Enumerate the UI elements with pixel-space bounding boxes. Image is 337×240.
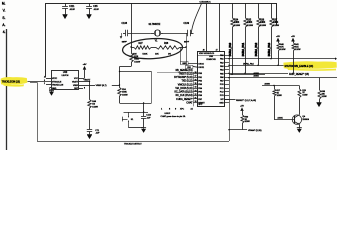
svg-text:C111: C111 xyxy=(69,6,75,8)
svg-text:SHUTDOWN_ENABLE (13): SHUTDOWN_ENABLE (13) xyxy=(285,65,314,68)
ground Q4 xyxy=(297,124,302,132)
svg-text:1/10W: 1/10W xyxy=(302,95,307,97)
svg-text:OSCO: OSCO xyxy=(198,63,204,65)
junction dots xyxy=(89,46,294,130)
svg-text:10K: 10K xyxy=(155,53,159,55)
label KB_SENSE xyxy=(157,70,198,106)
svg-text:R28: R28 xyxy=(164,43,169,45)
wire Y1 to C139 xyxy=(163,33,187,35)
svg-text:C65: C65 xyxy=(93,6,98,8)
svg-text:PB6: PB6 xyxy=(198,95,202,97)
value labels feedback row xyxy=(133,53,172,55)
U30 top pin 27 xyxy=(216,3,220,52)
svg-text:1/10W: 1/10W xyxy=(247,25,253,27)
svg-text:16: 16 xyxy=(195,79,197,81)
op-amp U40 box xyxy=(52,71,79,90)
pullup resistor R36 / net DURA_PA2 xyxy=(255,3,266,65)
wire mid horizontal xyxy=(120,72,152,104)
CUDA block outline xyxy=(46,4,277,78)
svg-text:A0686: A0686 xyxy=(265,83,270,86)
svg-text:PB7: PB7 xyxy=(198,99,202,101)
svg-text:KC_CLK (15,16): KC_CLK (15,16) xyxy=(176,95,193,97)
wire R25 elbow xyxy=(120,62,132,67)
osc feedback wire 2 xyxy=(185,47,197,69)
U30 right pin names xyxy=(219,54,224,104)
svg-text:RESET* (1,2,7,A,HI): RESET* (1,2,7,A,HI) xyxy=(236,99,256,102)
resistor R30 xyxy=(241,115,250,130)
svg-text:VRAM* (2,15): VRAM* (2,15) xyxy=(248,129,262,132)
svg-text:PA6: PA6 xyxy=(220,76,223,79)
svg-text:40: 40 xyxy=(203,50,205,52)
wire Q4 base xyxy=(274,117,295,120)
svg-text:C139: C139 xyxy=(184,23,190,25)
capacitor C110 xyxy=(141,112,152,128)
page margin text fragments xyxy=(2,1,6,33)
svg-text:+5V: +5V xyxy=(83,64,87,66)
capacitor C65 xyxy=(86,3,100,19)
U40 pin 4 stub xyxy=(44,77,51,79)
resistor R40 xyxy=(276,36,286,66)
svg-text:FAST_RESET* (15): FAST_RESET* (15) xyxy=(289,73,309,76)
svg-text:100K: 100K xyxy=(247,22,253,24)
svg-text:1/10W: 1/10W xyxy=(92,106,98,108)
transistor Q4 xyxy=(292,115,309,125)
node crystal-to-feedback xyxy=(186,33,188,47)
svg-text:2: 2 xyxy=(44,83,45,85)
svg-text:GND: GND xyxy=(52,88,57,90)
power +5V R30 xyxy=(240,106,244,116)
note text xyxy=(161,108,194,110)
svg-text:VRTC: VRTC xyxy=(52,78,58,80)
svg-text:XPC: XPC xyxy=(180,108,185,110)
svg-text:PA2: PA2 xyxy=(220,61,223,64)
svg-text:TRICKLE DETECT: TRICKLE DETECT xyxy=(124,144,142,146)
svg-text:VBATT: VBATT xyxy=(72,80,79,83)
U40 pin 2 stub xyxy=(44,83,51,85)
svg-text:PB1: PB1 xyxy=(198,77,202,79)
net labels into U30 xyxy=(174,72,197,105)
svg-text:PC1: PC1 xyxy=(220,88,224,90)
U40 pin names xyxy=(52,78,79,90)
svg-text:PB4: PB4 xyxy=(198,88,202,90)
svg-text:CHAT: CHAT xyxy=(186,102,193,105)
svg-text:DURA_PA4: DURA_PA4 xyxy=(243,62,255,65)
svg-text:+5V: +5V xyxy=(240,106,244,108)
svg-text:A.: A. xyxy=(2,23,5,27)
svg-text:1/10W: 1/10W xyxy=(277,95,282,97)
wire feedback row left xyxy=(131,47,134,49)
resistor R41 xyxy=(291,36,301,74)
svg-text:1%: 1% xyxy=(168,53,171,55)
U30 top pin 40 xyxy=(203,3,207,52)
mcu U30 box xyxy=(198,52,225,107)
wire VREF xyxy=(79,85,120,87)
svg-text:CUDA_RESET*: CUDA_RESET* xyxy=(176,98,192,101)
svg-text:XPC: XPC xyxy=(198,104,203,106)
ground S1 xyxy=(141,128,146,133)
bus wire row5 xyxy=(229,77,337,79)
capacitor C111 xyxy=(62,3,76,19)
svg-text:VDD VDD2/VLCD: VDD VDD2/VLCD xyxy=(199,53,215,55)
wire R27-R28 xyxy=(151,47,156,49)
svg-text:CHAT goes close to pin 15.: CHAT goes close to pin 15. xyxy=(161,115,187,118)
wire VRAM xyxy=(229,129,262,132)
svg-text:VIA_DATA (5,11): VIA_DATA (5,11) xyxy=(175,87,192,90)
bus wire PA1 xyxy=(229,73,288,75)
svg-text:8: 8 xyxy=(84,88,85,90)
svg-text:1/10W: 1/10W xyxy=(273,25,279,27)
resistor R68 xyxy=(318,78,327,102)
wire S1 drop xyxy=(143,103,145,112)
svg-text:4: 4 xyxy=(44,77,45,79)
resistor R27 xyxy=(134,43,151,49)
svg-text:0.5UF: 0.5UF xyxy=(165,113,171,115)
svg-text:14: 14 xyxy=(195,87,197,89)
capacitor C139 xyxy=(184,23,191,43)
crystal Y1 xyxy=(149,24,164,42)
pullup resistor R37 / net DURA_PA3 xyxy=(268,3,279,59)
svg-text:PB0: PB0 xyxy=(198,73,202,75)
wire S1 rail xyxy=(124,112,149,114)
ground R68 xyxy=(317,102,322,107)
svg-text:PB2: PB2 xyxy=(198,81,202,83)
note line 2 xyxy=(165,113,171,115)
svg-text:A2081: A2081 xyxy=(278,117,283,120)
label FAST_RESET xyxy=(289,73,309,76)
svg-text:DURA_PA3: DURA_PA3 xyxy=(268,42,271,56)
resistor R24 xyxy=(118,67,128,104)
svg-text:PC0: PC0 xyxy=(220,84,224,86)
svg-text:PA4: PA4 xyxy=(220,69,223,72)
U30 right pin stubs xyxy=(225,56,230,103)
svg-text:TREST (5,11): TREST (5,11) xyxy=(179,73,193,75)
yellow highlight SHUTDOWN_ENABLE xyxy=(283,61,336,71)
page fold line xyxy=(6,29,8,150)
bus wire PA2 xyxy=(229,62,284,65)
U40 gnd stub xyxy=(50,88,52,91)
svg-text:C138: C138 xyxy=(122,23,128,25)
svg-text:560K: 560K xyxy=(134,59,139,61)
svg-text:KC_DATA (10,15): KC_DATA (10,15) xyxy=(174,91,192,94)
svg-text:1/10W: 1/10W xyxy=(245,121,250,123)
svg-text:CDM5C743: CDM5C743 xyxy=(206,59,215,61)
svg-text:10: 10 xyxy=(195,101,197,103)
svg-text:510K: 510K xyxy=(143,53,148,55)
svg-text:1/10W: 1/10W xyxy=(260,25,266,27)
svg-text:LEVCN: LEVCN xyxy=(62,75,69,77)
curved wire to oscillator xyxy=(191,4,201,34)
svg-text:VTRICKLE: VTRICKLE xyxy=(52,81,62,83)
wire node row103 xyxy=(120,103,152,105)
power +5V at U40 xyxy=(79,64,87,78)
svg-text:68PF: 68PF xyxy=(184,42,190,44)
label TRICKLE DETECT xyxy=(124,144,142,146)
ground U40 xyxy=(49,91,54,96)
switch S1 xyxy=(122,112,134,128)
svg-text:32.768KHZ: 32.768KHZ xyxy=(149,24,161,26)
svg-text:PB5: PB5 xyxy=(198,91,202,93)
svg-text:100K: 100K xyxy=(234,22,240,24)
svg-text:PB3: PB3 xyxy=(198,84,202,86)
wire RESET* xyxy=(225,99,257,102)
svg-text:300K: 300K xyxy=(122,92,127,94)
svg-text:PA7: PA7 xyxy=(220,80,223,83)
svg-text:VREF (5,7): VREF (5,7) xyxy=(96,85,107,87)
svg-text:PA5: PA5 xyxy=(220,72,223,75)
svg-text:+5V: +5V xyxy=(291,36,295,38)
svg-text:.01UF: .01UF xyxy=(93,9,99,11)
svg-text:KB_SENSE (15): KB_SENSE (15) xyxy=(176,70,193,72)
node TRICKLE/ON wire xyxy=(28,80,52,82)
svg-text:100K: 100K xyxy=(260,22,266,24)
svg-text:GND: GND xyxy=(219,102,224,104)
svg-text:15: 15 xyxy=(195,83,197,85)
svg-text:A0686: A0686 xyxy=(254,72,259,75)
yellow highlight TRICKLE/ON xyxy=(1,77,28,87)
svg-text:68PF: 68PF xyxy=(122,42,128,44)
bus wire PA3 xyxy=(229,57,337,60)
svg-text:PA1: PA1 xyxy=(220,58,223,61)
ground C71 xyxy=(87,132,92,140)
svg-text:TXD (5,11): TXD (5,11) xyxy=(181,81,192,83)
resistor R19 xyxy=(298,86,308,115)
svg-text:S.: S. xyxy=(2,16,5,20)
resistor R17 xyxy=(273,86,282,120)
svg-text:VCC: VCC xyxy=(74,78,79,80)
U30 left pin names xyxy=(198,63,205,106)
svg-text:PC3: PC3 xyxy=(220,95,224,97)
svg-text:R27: R27 xyxy=(139,43,144,45)
svg-text:U40: U40 xyxy=(63,72,68,74)
svg-text:1/10W: 1/10W xyxy=(295,49,300,51)
bus wire PA0 xyxy=(229,72,265,78)
capacitor C138 xyxy=(120,23,128,43)
svg-text:V.: V. xyxy=(3,9,6,13)
capacitor C71 xyxy=(87,108,100,135)
svg-text:PC2: PC2 xyxy=(220,92,224,94)
svg-text:M.: M. xyxy=(2,1,6,5)
svg-text:BYTRANS* (5,11): BYTRANS* (5,11) xyxy=(174,76,192,79)
wire C139 right xyxy=(190,33,194,35)
svg-text:PA3: PA3 xyxy=(220,65,223,68)
osc feedback wire 1 xyxy=(180,47,198,65)
highlight ellipse xyxy=(122,37,183,60)
svg-text:VINCLK (5,11): VINCLK (5,11) xyxy=(178,84,193,86)
svg-text:1/10W: 1/10W xyxy=(234,25,240,27)
resistor R46 xyxy=(88,81,98,108)
svg-text:3: 3 xyxy=(44,80,45,82)
svg-text:1/10W: 1/10W xyxy=(322,96,327,98)
svg-text:TRICKLE_DN: TRICKLE_DN xyxy=(52,85,64,87)
svg-text:1/10W: 1/10W xyxy=(134,61,140,63)
svg-text:2N3904: 2N3904 xyxy=(302,119,308,121)
wire VBATT xyxy=(79,78,91,81)
svg-text:TRICKLE/ON (13): TRICKLE/ON (13) xyxy=(2,81,20,83)
U40 det stub xyxy=(79,88,85,90)
svg-text:1/10W: 1/10W xyxy=(280,49,285,51)
svg-text:+5V: +5V xyxy=(276,36,280,38)
wire collector rail xyxy=(262,83,299,86)
resistor R25 xyxy=(130,54,140,64)
wire R28 right xyxy=(180,47,187,49)
svg-text:1M: 1M xyxy=(92,104,95,106)
svg-text:CUDAMCC: CUDAMCC xyxy=(200,1,212,4)
TRICKLE DETECT box xyxy=(30,56,230,142)
note line 3 xyxy=(161,115,187,118)
svg-text:DURA_PA2: DURA_PA2 xyxy=(255,42,258,56)
resistor R28 xyxy=(156,43,180,49)
block name CUDAMCC xyxy=(200,1,212,4)
svg-text:VREF: VREF xyxy=(73,85,79,87)
wire top-border drop x131 xyxy=(131,3,133,54)
svg-text:100K: 100K xyxy=(273,22,279,24)
svg-text:12: 12 xyxy=(195,94,197,96)
svg-text:11: 11 xyxy=(195,98,197,100)
wire S1 bottom rail xyxy=(129,127,144,129)
wire C138 to Y1 xyxy=(128,33,151,35)
svg-text:.01UF: .01UF xyxy=(69,9,75,11)
svg-text:27: 27 xyxy=(216,50,218,52)
svg-text:OSCI1: OSCI1 xyxy=(198,67,204,69)
svg-text:1/10W: 1/10W xyxy=(122,94,128,96)
svg-text:DURA_PA0: DURA_PA0 xyxy=(229,42,232,56)
svg-text:17: 17 xyxy=(195,76,197,78)
svg-text:18: 18 xyxy=(195,72,197,74)
svg-text:4.: 4. xyxy=(3,30,6,34)
svg-text:PA0: PA0 xyxy=(220,54,223,57)
pullup resistor R35 / net DURA_PA1 xyxy=(242,3,253,73)
svg-text:13: 13 xyxy=(195,90,197,92)
svg-text:DURA_PA1: DURA_PA1 xyxy=(242,42,245,56)
pullup resistor R34 / net DURA_PA0 xyxy=(229,3,240,74)
